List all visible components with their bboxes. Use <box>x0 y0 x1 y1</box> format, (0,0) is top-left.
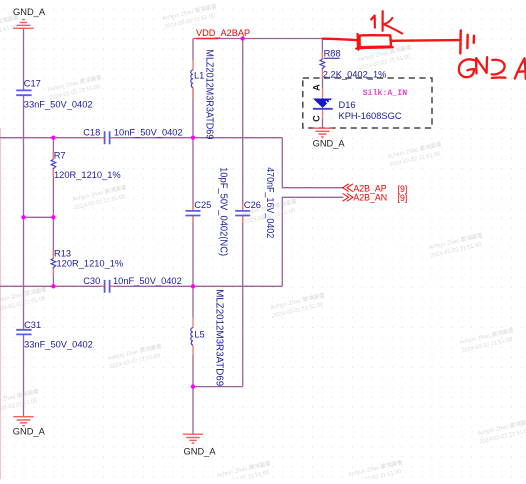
anno GND A text <box>459 59 474 77</box>
svg-text:33nF_50V_0402: 33nF_50V_0402 <box>24 100 93 110</box>
ground G2 under D16 <box>312 128 332 137</box>
inductor L5 coil <box>191 328 193 345</box>
red net anchor under VDD label <box>196 38 218 40</box>
svg-text:L5: L5 <box>194 330 204 340</box>
svg-text:D16: D16 <box>339 100 356 110</box>
capacitor C30 plates <box>105 280 110 293</box>
svg-text:A2B_AN: A2B_AN <box>353 192 387 202</box>
wire VDD horizontal <box>193 38 322 40</box>
svg-text:GND_A: GND_A <box>313 138 346 148</box>
anno ground bar2 <box>466 35 469 48</box>
pin L1 pin1 <box>192 60 194 70</box>
wire A2B stubs <box>282 138 344 287</box>
svg-text:10nF_50V_0402: 10nF_50V_0402 <box>113 276 182 286</box>
svg-text:KPH-1608SGC: KPH-1608SGC <box>339 111 402 121</box>
pins C30 <box>100 285 114 287</box>
svg-text:C31: C31 <box>24 320 41 330</box>
svg-text:120R_1210_1%: 120R_1210_1% <box>54 170 121 180</box>
diode D16 LED triangle <box>313 99 334 109</box>
junction R13 bottom <box>51 284 55 288</box>
wire C26 rail <box>193 39 243 387</box>
junction R7-R13 mid <box>51 215 55 219</box>
junction R7 top <box>51 136 55 140</box>
pins C25 <box>192 203 194 223</box>
D16 anode pin <box>322 78 324 89</box>
svg-text:120R_1210_1%: 120R_1210_1% <box>57 259 124 269</box>
junction VDD node <box>241 36 245 40</box>
capacitor C31 plates <box>16 330 31 335</box>
pins R7 <box>52 152 54 177</box>
svg-text:10nF_50V_0402: 10nF_50V_0402 <box>114 128 183 138</box>
handdrawn annotations <box>323 11 526 79</box>
pin L1 pin2 <box>192 87 194 98</box>
anno ground bar1 <box>459 30 462 53</box>
ground G1 top left (inverted) <box>13 20 332 444</box>
page border left edge <box>0 128 1 479</box>
capacitor C18 plates <box>16 90 250 334</box>
anno resistor box <box>360 35 392 47</box>
wire link C17-R7 <box>24 216 54 218</box>
offpage chevrons A2B_AP <box>343 184 353 201</box>
resistor R13 zigzag <box>51 259 56 268</box>
svg-text:R7: R7 <box>54 150 66 160</box>
svg-text:33nF_50V_0402: 33nF_50V_0402 <box>24 340 93 350</box>
pins R13 <box>52 251 54 275</box>
wire L1 C25 L5 rail <box>192 39 194 435</box>
anno ground bar3 <box>473 36 476 43</box>
anno box flourish left <box>357 34 360 50</box>
svg-text:GND_A: GND_A <box>13 427 46 437</box>
anno box flourish bottom <box>356 47 393 48</box>
ground G4 under L5 <box>183 434 203 443</box>
dashed silk box <box>303 78 432 128</box>
underline R88 <box>324 57 340 59</box>
junction L1 bottom <box>191 136 195 140</box>
svg-text:MLZ2012M3R3ATD69: MLZ2012M3R3ATD69 <box>204 49 215 139</box>
svg-text:MLZ2012M3R3ATD69: MLZ2012M3R3ATD69 <box>214 289 225 386</box>
svg-text:C25: C25 <box>194 200 211 210</box>
inductor L1 coil <box>191 70 193 88</box>
svg-text:470nF_16V_0402: 470nF_16V_0402 <box>264 167 275 238</box>
svg-text:C30: C30 <box>83 276 100 286</box>
capacitor C26 plates <box>235 211 250 216</box>
anno wire right <box>392 39 460 42</box>
svg-text:L1: L1 <box>194 71 204 81</box>
D16 cathode pin <box>322 109 324 119</box>
svg-text:[9]: [9] <box>398 193 408 203</box>
svg-text:10pF_50V_0402(NC): 10pF_50V_0402(NC) <box>218 167 229 256</box>
wire GND rail left <box>23 28 25 416</box>
wire R7 R13 rail <box>52 138 54 287</box>
svg-text:C17: C17 <box>24 79 41 89</box>
svg-text:C18: C18 <box>83 128 100 138</box>
pins C18 <box>100 137 114 139</box>
svg-text:VDD_A2BAP: VDD_A2BAP <box>196 28 250 38</box>
svg-text:GND_A: GND_A <box>184 446 217 456</box>
junction L5 bottom <box>191 384 195 388</box>
capacitor C25 plates <box>186 211 201 216</box>
svg-text:R88: R88 <box>324 49 341 59</box>
junction C17 bottom <box>21 215 25 219</box>
pins L5 <box>192 318 194 356</box>
anno wire left <box>323 39 358 41</box>
pins C26 <box>242 203 244 223</box>
capacitor C17 plates <box>16 90 31 95</box>
svg-text:A: A <box>312 84 322 91</box>
ground G3 bottom left <box>13 417 33 426</box>
resistor R88 zigzag <box>320 59 325 68</box>
offpage chevrons A2B_AN <box>343 193 353 201</box>
wire net2 horizontal C30 line <box>0 285 282 287</box>
svg-text:Silk:A_IN: Silk:A_IN <box>363 88 408 98</box>
junction L5 top <box>191 284 195 288</box>
svg-text:2.2K_0402_1%: 2.2K_0402_1% <box>323 70 387 80</box>
svg-text:C: C <box>312 115 322 122</box>
wire R88 drop <box>321 39 323 60</box>
wire net1 horizontal C18 line <box>0 28 344 434</box>
anno 1k <box>371 16 375 28</box>
pins R88 <box>321 52 323 78</box>
resistor R7 zigzag <box>51 159 56 168</box>
svg-text:R13: R13 <box>54 248 71 258</box>
